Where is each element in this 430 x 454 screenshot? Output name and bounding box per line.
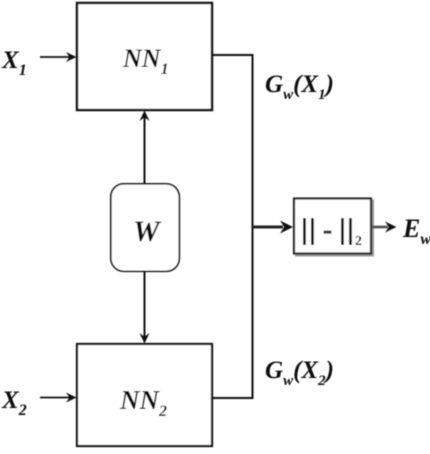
- wire arrow into norm box: [253, 221, 294, 234]
- norm symbol bars right pair: [341, 218, 352, 245]
- wire X1 arrow: [40, 52, 77, 62]
- norm symbol hyphen: [324, 231, 332, 234]
- svg-text:X2: X2: [1, 387, 27, 419]
- wire X2 arrow: [40, 393, 77, 403]
- wire W to NN1 arrow up: [140, 111, 150, 184]
- box W: [111, 184, 180, 271]
- wire W to NN2 arrow down: [140, 272, 150, 344]
- wire output arrow to Ew: [372, 222, 397, 233]
- svg-text:Gw(X2): Gw(X2): [265, 357, 334, 389]
- svg-text:Gw(X1): Gw(X1): [265, 71, 334, 103]
- svg-text:W: W: [133, 215, 162, 248]
- svg-text:X1: X1: [1, 47, 27, 79]
- svg-text:Ew: Ew: [402, 214, 430, 248]
- norm box: [294, 199, 371, 254]
- box NN1: [77, 3, 212, 110]
- box NN2: [77, 344, 212, 446]
- norm box shadow: [296, 201, 373, 256]
- norm symbol bars left pair: [303, 218, 314, 245]
- wire output bus from NN1 and NN2: [213, 55, 253, 398]
- svg-text:2: 2: [355, 234, 362, 249]
